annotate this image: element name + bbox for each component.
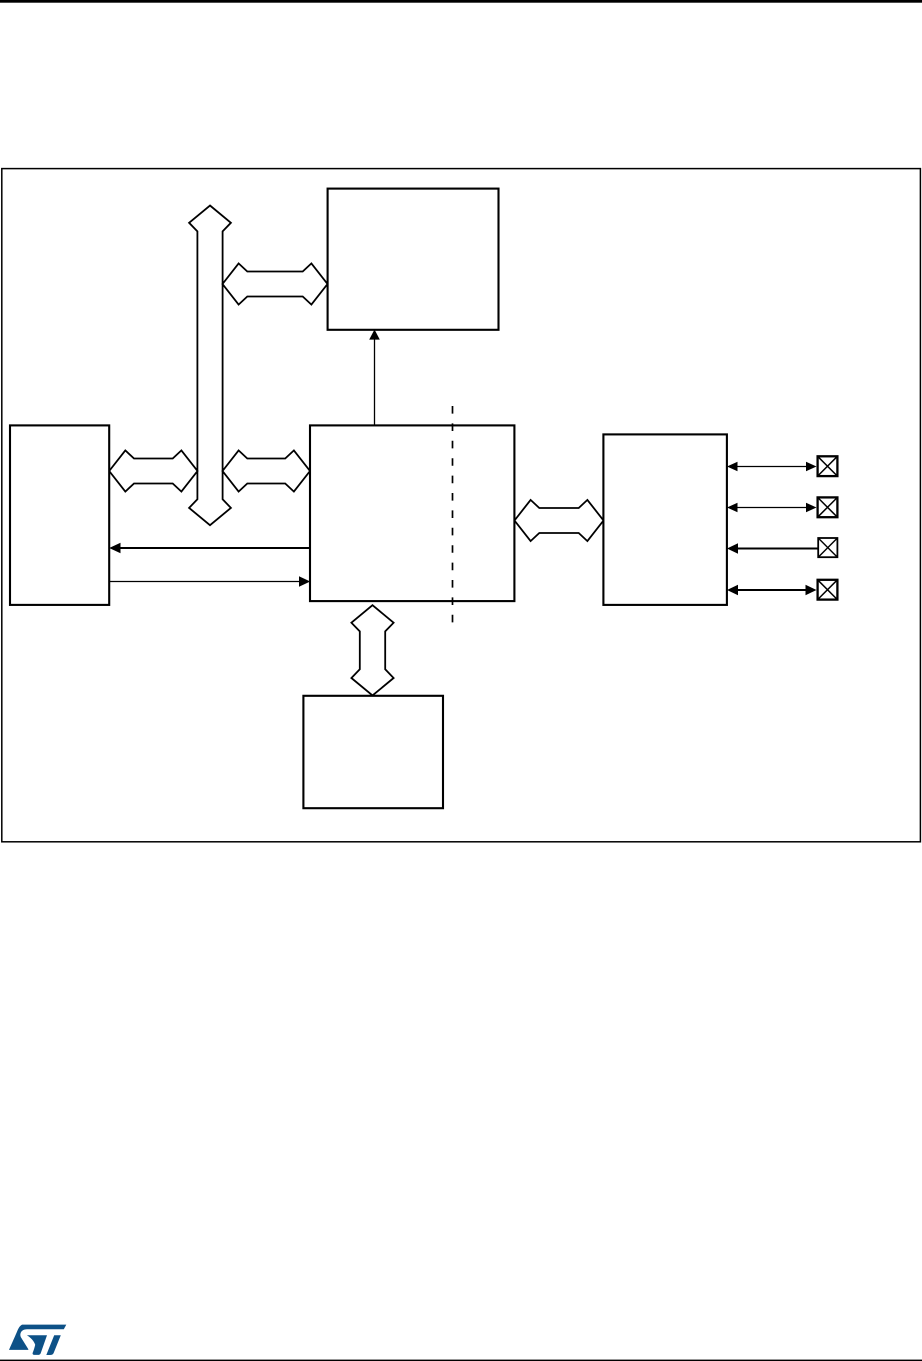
ST logo [9, 1325, 66, 1355]
big vertical double arrow (bus) [189, 206, 231, 526]
figure frame [2, 169, 921, 842]
pin row 1 wire (double arrow) [733, 466, 811, 468]
vertical double arrow: central block to bottom block [351, 605, 393, 695]
bottom block [303, 696, 443, 808]
right block [603, 434, 727, 605]
pin row 3 wire (arrow into block only) [733, 548, 818, 550]
pin symbol 4 (crossed box) [818, 580, 838, 600]
node arrowhead up into top block [369, 330, 380, 340]
pin symbol 1 (crossed box) [818, 456, 838, 476]
horizontal double arrow: left block to bus [109, 450, 197, 491]
top block [328, 189, 499, 330]
horizontal double arrow: bus to top block [223, 263, 328, 304]
horizontal double arrow: bus to central block [223, 450, 311, 491]
top header rule [0, 0, 922, 3]
wire: line with left arrow (central block to left block) [119, 547, 310, 549]
wire: line with right arrow (left block to central block) [110, 581, 301, 583]
pin symbol 2 (crossed box) [818, 497, 838, 517]
horizontal double arrow: central block to right block [515, 500, 604, 541]
left block [10, 425, 109, 605]
central block [310, 425, 514, 601]
pin row 4 wire (double arrow) [733, 589, 811, 591]
pin row 2 wire (double arrow) [733, 507, 811, 509]
wire: vertical line from central block to top block [374, 339, 376, 425]
bottom footer rule [0, 1360, 922, 1361]
pin symbol 3 (crossed box) [818, 538, 837, 557]
dashed partition line through central block [452, 406, 454, 630]
